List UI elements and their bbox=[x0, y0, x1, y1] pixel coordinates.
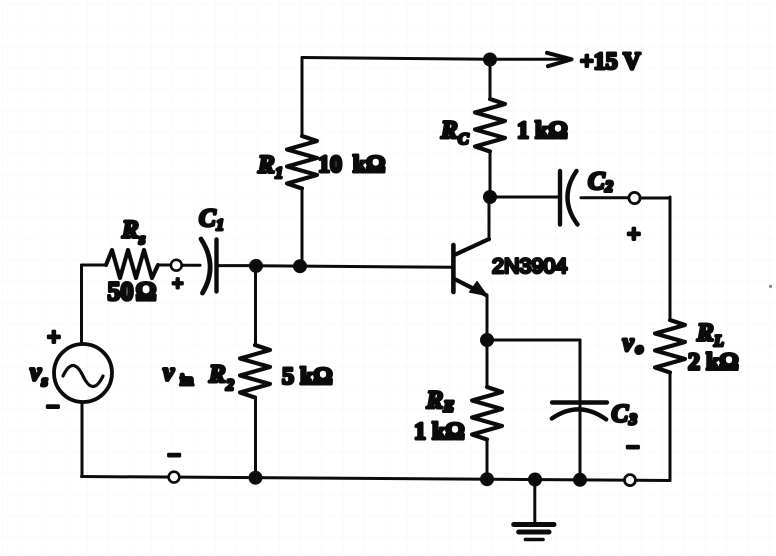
resistor RC bbox=[475, 99, 505, 152]
ground bars bbox=[514, 525, 554, 540]
node bottom R2 junction dot bbox=[249, 471, 263, 485]
resistor RL bbox=[655, 320, 685, 373]
wire RE bottom bbox=[486, 440, 489, 480]
wire R1 top bbox=[301, 58, 304, 137]
resistor Rs bbox=[106, 250, 158, 278]
svg-text:1 kΩ: 1 kΩ bbox=[414, 419, 465, 445]
svg-text:in: in bbox=[180, 372, 193, 389]
svg-text:2: 2 bbox=[225, 377, 234, 394]
node bottom ground junction dot bbox=[528, 473, 542, 487]
source vs circle bbox=[54, 344, 112, 402]
capacitor C2 bbox=[560, 171, 578, 225]
resistor R2 bbox=[240, 345, 270, 398]
wire C3 bottom bbox=[579, 412, 582, 480]
+15 V supply arrow bbox=[547, 53, 572, 66]
svg-text:1: 1 bbox=[275, 165, 283, 182]
svg-text:R: R bbox=[208, 361, 226, 388]
wire R2 top bbox=[254, 266, 257, 345]
node bottom-left terminal bbox=[169, 472, 180, 483]
node VCC junction dot bbox=[483, 53, 497, 67]
node collector junction dot bbox=[483, 190, 497, 204]
node input terminal bbox=[171, 260, 182, 271]
svg-text:v: v bbox=[163, 359, 175, 386]
wire source top bbox=[80, 265, 83, 344]
ground stem bbox=[533, 480, 536, 523]
svg-text:R: R bbox=[440, 117, 458, 144]
capacitor C3 bbox=[552, 403, 607, 420]
svg-text:5 kΩ: 5 kΩ bbox=[282, 364, 333, 390]
svg-text:+: + bbox=[627, 222, 641, 248]
svg-text:R: R bbox=[257, 152, 275, 179]
wire top rail bbox=[302, 58, 566, 60]
node bottom RE junction dot bbox=[480, 472, 494, 486]
wire emitter node to C3 branch bbox=[487, 339, 580, 342]
svg-text:C: C bbox=[612, 401, 629, 428]
resistor R1 bbox=[287, 136, 317, 189]
svg-text:s: s bbox=[41, 373, 48, 390]
wire R1 bottom bbox=[301, 189, 304, 267]
wire output terminal to right rail bbox=[640, 197, 670, 200]
svg-text:E: E bbox=[443, 399, 455, 416]
transistor Q1 collector lead bbox=[455, 239, 489, 255]
svg-text:−: − bbox=[167, 443, 181, 469]
wire collector to C2 bbox=[490, 196, 558, 199]
node output terminal bbox=[629, 192, 640, 203]
svg-text:+: + bbox=[172, 273, 183, 295]
node emitter junction dot bbox=[480, 333, 494, 347]
svg-text:10 kΩ: 10 kΩ bbox=[318, 152, 385, 178]
svg-text:s: s bbox=[138, 231, 145, 248]
svg-text:+15 V: +15 V bbox=[580, 49, 641, 75]
wire RL bottom bbox=[669, 373, 672, 481]
svg-text:+: + bbox=[47, 325, 61, 351]
capacitor C1 bbox=[201, 239, 217, 293]
wire collector bbox=[488, 197, 491, 240]
svg-text:50 Ω: 50 Ω bbox=[108, 277, 157, 306]
svg-text:−: − bbox=[46, 395, 60, 421]
wire Rs to terminal bbox=[158, 264, 171, 267]
wire RL top bbox=[669, 197, 672, 320]
wire base bbox=[256, 266, 453, 268]
svg-text:2 kΩ: 2 kΩ bbox=[688, 350, 739, 376]
svg-text:−: − bbox=[626, 435, 640, 461]
wire input left segment bbox=[82, 264, 107, 267]
wire R2 bottom bbox=[254, 398, 257, 478]
wire source bottom bbox=[81, 402, 84, 477]
stray scan speck bbox=[769, 285, 772, 288]
wire emitter bbox=[486, 295, 489, 340]
svg-text:1 kΩ: 1 kΩ bbox=[517, 118, 568, 144]
transistor Q1 emitter lead bbox=[455, 280, 486, 296]
wire RC top bbox=[489, 59, 492, 99]
svg-text:2: 2 bbox=[604, 179, 613, 196]
node bottom-right terminal bbox=[625, 475, 636, 486]
svg-text:1: 1 bbox=[216, 217, 224, 234]
wire RE top bbox=[486, 340, 489, 387]
svg-text:v: v bbox=[623, 330, 635, 357]
svg-text:R: R bbox=[121, 217, 139, 244]
svg-text:C: C bbox=[199, 205, 216, 232]
svg-text:R: R bbox=[696, 320, 714, 347]
node base junction dot 2 bbox=[293, 259, 307, 273]
wire C1 to base node bbox=[216, 264, 256, 267]
wire bottom rail bbox=[82, 477, 671, 481]
transistor Q1 base bar bbox=[451, 245, 456, 292]
svg-text:v: v bbox=[30, 359, 42, 386]
transistor Q1 emitter arrow bbox=[469, 281, 489, 297]
svg-text:o: o bbox=[636, 341, 644, 358]
svg-text:2N3904: 2N3904 bbox=[492, 254, 567, 278]
svg-text:3: 3 bbox=[628, 412, 637, 429]
wire C2 to output terminal bbox=[581, 196, 628, 199]
wire terminal to C1 bbox=[182, 264, 200, 267]
wire C3 top bbox=[579, 340, 582, 407]
resistor RE bbox=[472, 387, 502, 440]
source vs sine bbox=[63, 366, 103, 387]
svg-text:L: L bbox=[713, 333, 724, 350]
node base junction dot 1 bbox=[249, 259, 263, 273]
wire RC bottom bbox=[489, 152, 492, 198]
svg-text:R: R bbox=[426, 387, 444, 414]
svg-text:C: C bbox=[458, 131, 469, 148]
node bottom C3 junction dot bbox=[573, 473, 587, 487]
svg-text:C: C bbox=[588, 168, 605, 195]
